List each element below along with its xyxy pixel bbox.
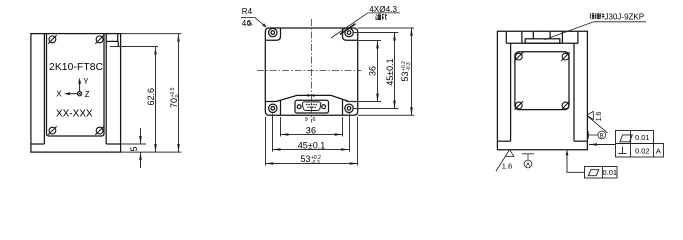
- svg-text:1.6: 1.6: [502, 162, 512, 171]
- svg-text:36: 36: [367, 66, 377, 76]
- svg-text:-0.3: -0.3: [406, 62, 412, 71]
- svg-text:4: 4: [242, 19, 247, 28]
- svg-text:Y: Y: [83, 77, 89, 86]
- svg-text:0: 0: [175, 94, 181, 97]
- svg-text:62.6: 62.6: [146, 88, 156, 106]
- svg-text:70: 70: [169, 98, 179, 108]
- svg-text:9: 9: [305, 117, 308, 123]
- svg-text:-0.3: -0.3: [311, 160, 320, 166]
- svg-text:0.02: 0.02: [635, 146, 650, 155]
- svg-text:4XØ4.3: 4XØ4.3: [369, 5, 397, 14]
- svg-text:A: A: [526, 162, 530, 168]
- svg-text:X: X: [56, 90, 62, 99]
- svg-text:6: 6: [312, 117, 315, 123]
- svg-text:5: 5: [129, 146, 139, 151]
- svg-text:2K10-FT8C: 2K10-FT8C: [49, 62, 104, 73]
- svg-text:53: 53: [300, 154, 310, 164]
- svg-text:XX-XXX: XX-XXX: [56, 108, 93, 119]
- svg-text:R4: R4: [242, 7, 253, 16]
- svg-text:45±0.1: 45±0.1: [298, 141, 325, 151]
- svg-text:0.01: 0.01: [635, 133, 650, 142]
- svg-text:36: 36: [306, 126, 317, 136]
- svg-text:Z: Z: [85, 90, 90, 99]
- svg-text:45±0.1: 45±0.1: [385, 58, 395, 85]
- svg-text:J30J-9ZKP: J30J-9ZKP: [605, 13, 645, 22]
- svg-text:0.01: 0.01: [602, 168, 617, 177]
- svg-text:B: B: [600, 133, 604, 139]
- svg-text:A: A: [656, 146, 661, 155]
- svg-text:1.6: 1.6: [596, 111, 603, 121]
- svg-text:53: 53: [400, 71, 410, 81]
